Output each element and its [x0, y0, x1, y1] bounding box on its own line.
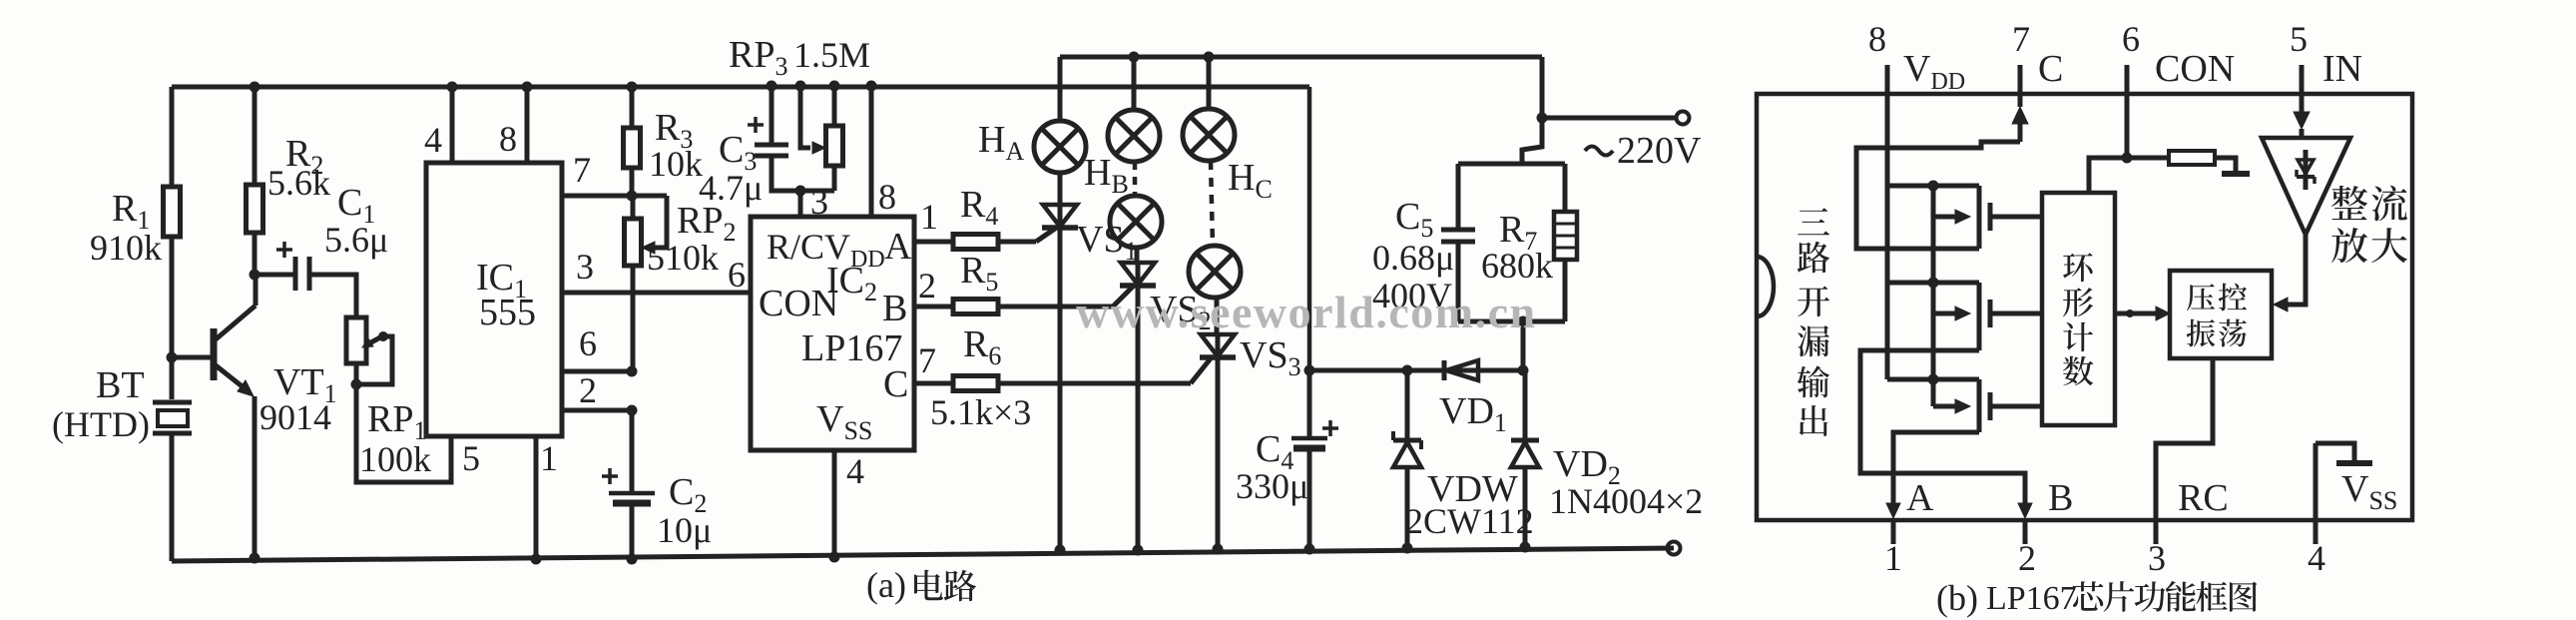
lamp HB upper	[1108, 110, 1160, 162]
label IC1 pin 6	[579, 323, 597, 363]
node pin2 junction	[627, 405, 638, 416]
node CON junction	[2122, 153, 2133, 164]
node HC column rail	[1204, 52, 1215, 63]
amp inner diode	[2297, 150, 2315, 190]
capacitor C5	[1441, 164, 1475, 321]
wire cell3 drain to pin1	[1886, 432, 1979, 544]
label LP167 R/C VDD A	[767, 226, 912, 273]
wire cell2 feed	[1887, 281, 1979, 286]
label R6	[963, 323, 1001, 370]
wire pin4 stub	[2314, 443, 2318, 544]
svg-text:IN: IN	[2322, 48, 2362, 90]
resistor R6	[953, 376, 998, 391]
label pin 2	[2018, 538, 2036, 578]
label IC1 pin 1	[540, 438, 558, 478]
svg-text:7: 7	[2012, 19, 2030, 59]
wire cell1 drain to pin7	[1856, 142, 2020, 249]
label RP3 and value 1.5M	[729, 34, 870, 81]
label IN net	[2322, 48, 2362, 90]
label R5	[960, 250, 998, 297]
diode VD2	[1511, 370, 1539, 547]
wire pin6 stub	[2125, 65, 2130, 158]
label R7 value 680k	[1481, 246, 1553, 286]
node pin7 R3 junction	[627, 191, 638, 202]
wire HB to VS2	[1135, 248, 1140, 264]
wire LP167 pin8 stub	[869, 86, 874, 217]
node RP3 wiper rail	[795, 81, 806, 92]
node emitter bottom rail	[250, 553, 260, 564]
label RP2 value 510k	[647, 238, 719, 278]
label LP167 name	[801, 327, 902, 369]
label VT1 type 9014	[259, 397, 331, 437]
label B net	[2048, 477, 2073, 519]
svg-text:1: 1	[920, 197, 938, 237]
wire HB column top	[1132, 57, 1137, 110]
label R7	[1499, 209, 1537, 256]
wire RP3 wiper	[800, 86, 825, 154]
wire C3 bottom to node	[772, 156, 834, 191]
wire to 220V terminal	[1542, 116, 1676, 121]
label C1 value 5.6u	[324, 220, 388, 260]
label C5 voltage 400V	[1372, 276, 1452, 315]
label IC1 pin 3	[576, 247, 594, 287]
label C5 value 0.68u	[1372, 238, 1454, 278]
svg-text:2: 2	[579, 370, 597, 410]
svg-text:1: 1	[540, 438, 558, 478]
node 220V junction	[1537, 113, 1548, 124]
svg-text:2CW112: 2CW112	[1405, 501, 1534, 541]
label VD2	[1553, 443, 1621, 490]
wire ring counter to VCO	[2115, 307, 2170, 320]
wire HA to VS1	[1058, 173, 1063, 205]
wire lamp rail drop	[1540, 57, 1545, 118]
wire IC1 pin6 line	[562, 369, 632, 374]
label LP167 pin 1	[920, 197, 938, 237]
capacitor C4	[1291, 370, 1338, 549]
svg-text:2: 2	[2018, 538, 2036, 578]
label VDW type 2CW112	[1405, 501, 1534, 541]
label RP1 value 100k	[359, 439, 431, 479]
wire pin A lead	[914, 240, 953, 245]
resistor R2	[247, 185, 263, 233]
label pin 7	[2012, 19, 2030, 59]
label R1 value 910k	[90, 228, 162, 268]
node VDW top	[1402, 365, 1413, 376]
wire LP167 pin3 stub	[798, 191, 803, 217]
wire RP1 bottom lead	[354, 363, 359, 384]
node pin8 drop rail	[866, 81, 877, 92]
svg-text:6: 6	[728, 255, 746, 295]
label VD2 type 1N4004x2	[1549, 481, 1703, 521]
node C4 bottom rail	[1304, 544, 1315, 555]
wire collector node to C1	[255, 273, 295, 278]
label VS1	[1076, 219, 1138, 266]
transistor VT1	[214, 275, 256, 561]
label IC1 pin 7	[573, 150, 591, 190]
caption a	[866, 565, 976, 605]
zener VDW	[1393, 370, 1421, 548]
label IC1 pin 5	[462, 438, 480, 478]
label C5	[1395, 196, 1433, 243]
label A net	[1906, 477, 1934, 519]
lamp HB lower	[1110, 196, 1162, 248]
node RP1 bottom junction	[351, 379, 362, 390]
svg-text:8: 8	[1868, 19, 1886, 59]
wire VS1 to bottom rail	[1058, 205, 1063, 550]
label LP167 CON	[759, 283, 838, 324]
label VSS	[2341, 468, 2397, 515]
svg-text:(a): (a)	[866, 565, 906, 605]
resistor R7	[1554, 164, 1577, 321]
svg-text:5: 5	[2290, 19, 2308, 59]
svg-text:R/C: R/C	[767, 227, 824, 267]
svg-text:100k: 100k	[359, 439, 431, 479]
op-amp U2 IC2 LP167 box	[751, 217, 914, 450]
label pin 4	[2308, 538, 2325, 578]
resistor R3	[624, 128, 641, 168]
svg-text:8: 8	[499, 119, 517, 159]
svg-text:5.6μ: 5.6μ	[324, 220, 388, 260]
node pin6 junction	[627, 366, 638, 377]
lamp HC lower	[1189, 246, 1241, 298]
terminal 220V	[1677, 112, 1690, 125]
svg-text:7: 7	[573, 150, 591, 190]
label RP2	[677, 200, 736, 247]
wire IC1 pin1 stub	[534, 436, 539, 560]
node collector junction	[250, 270, 260, 281]
svg-text:6: 6	[2122, 19, 2140, 59]
label BT	[96, 364, 145, 406]
node VS2 bottom rail	[1133, 545, 1144, 556]
svg-text:3: 3	[2148, 538, 2166, 578]
svg-text:4.7μ: 4.7μ	[699, 168, 763, 208]
node HB column rail	[1129, 52, 1140, 63]
wire pin5 stub	[2294, 65, 2310, 139]
wire cell2 drain to pin2	[1860, 350, 2032, 544]
node pin4 bottom rail	[829, 552, 840, 563]
wire top rail corner drop to rectifier node	[1307, 87, 1312, 370]
thyristor VS3	[1200, 334, 1236, 357]
label C3	[719, 129, 757, 176]
potentiometer RP3	[826, 86, 843, 191]
svg-text:1.5M: 1.5M	[793, 35, 870, 75]
svg-text:4: 4	[846, 451, 864, 491]
wire RC loop top	[1458, 162, 1565, 167]
node rectifier left	[1304, 365, 1315, 376]
svg-text:5.1k×3: 5.1k×3	[930, 392, 1031, 432]
wire bottom rail	[172, 548, 1674, 561]
label IC1 pin 8	[499, 119, 517, 159]
wire top VDD rail	[172, 85, 1309, 90]
wire C1 to RP1	[309, 275, 356, 317]
label VDW	[1427, 468, 1518, 510]
svg-text:CON: CON	[759, 283, 838, 324]
lamp HA	[1034, 121, 1086, 173]
wire amp to VCO	[2274, 235, 2306, 311]
node VS3 bottom rail	[1213, 544, 1224, 555]
wire R6 to VS3 gate	[998, 358, 1211, 383]
label IC1	[476, 257, 527, 304]
wire VS3 to bottom rail	[1216, 334, 1221, 549]
wire HC to VS3	[1215, 298, 1220, 335]
amplifier triangle	[2262, 138, 2350, 235]
potentiometer RP2	[625, 196, 668, 371]
wire R4 to VS1 gate	[998, 229, 1055, 242]
resistor R1	[164, 187, 181, 237]
watermark	[1076, 287, 1537, 337]
node cell1 feed	[1928, 181, 1939, 192]
ring counter box	[2042, 193, 2115, 425]
node VD2 bottom rail	[1520, 542, 1531, 553]
resistor R4	[953, 235, 998, 250]
wire 220V node to RC loop	[1522, 118, 1542, 164]
svg-text:510k: 510k	[647, 238, 719, 278]
label VT1	[273, 361, 337, 408]
svg-text:0.68μ: 0.68μ	[1372, 238, 1454, 278]
thyristor VS2	[1120, 263, 1156, 286]
wire RP1 to pin5 detour	[356, 384, 451, 482]
label C1	[337, 182, 375, 229]
label R1	[112, 188, 150, 235]
svg-text:1N4004×2: 1N4004×2	[1549, 481, 1703, 521]
potentiometer RP1	[346, 317, 392, 384]
wire VCO to pin3	[2156, 358, 2213, 544]
node VDW bottom rail	[1402, 543, 1413, 554]
label R3	[655, 107, 693, 154]
svg-text:B: B	[882, 288, 907, 329]
label HB	[1084, 152, 1129, 199]
terminal bottom right	[1668, 542, 1681, 555]
wire IC1 pin3 to CON	[562, 291, 751, 296]
block diagram outer box	[1757, 94, 2412, 520]
label IC1 pin 2	[579, 370, 597, 410]
wire VS2 to bottom rail	[1136, 263, 1141, 550]
wire IC1 pin2 line	[562, 408, 632, 413]
node VS1 bottom rail	[1055, 545, 1066, 556]
label LP167 VSS	[816, 398, 872, 445]
svg-text:C: C	[883, 363, 908, 405]
wire HC dashed link	[1211, 161, 1213, 246]
node base junction	[167, 352, 178, 363]
node VD1 cathode node	[1518, 365, 1529, 376]
svg-text:9014: 9014	[259, 397, 331, 437]
wire R2 top lead	[253, 87, 258, 185]
label LP167 pin 6	[728, 255, 746, 295]
node cell2 feed	[1928, 278, 1939, 289]
label RP1	[367, 398, 426, 445]
label ~220V	[1585, 130, 1702, 172]
svg-text:3: 3	[576, 247, 594, 287]
wire rectifier row	[1309, 368, 1523, 373]
wire R3 top lead	[630, 87, 635, 128]
resistor R5	[953, 300, 998, 314]
wire lamp HA column top	[1058, 57, 1063, 121]
wire crystal to bottom rail	[170, 433, 175, 561]
label three-way open-drain output	[1798, 208, 1830, 436]
node C3 top rail	[767, 81, 777, 92]
label pin 3	[2148, 538, 2166, 578]
label LP167 pin 3	[810, 182, 828, 222]
label LP167 pin 4	[846, 451, 864, 491]
node pin3 node	[795, 186, 806, 197]
wire C3 top lead	[770, 86, 774, 145]
label LP167 C	[883, 363, 908, 405]
svg-text:2: 2	[918, 266, 936, 306]
label ring counter	[2063, 253, 2093, 385]
label VS2	[1150, 289, 1212, 335]
wire RC loop bottom	[1458, 319, 1565, 324]
wire pin B lead	[914, 305, 953, 310]
label RC net	[2178, 477, 2229, 519]
wire HB dashed link	[1133, 162, 1138, 196]
label LP167 pin 7	[918, 340, 936, 380]
wire CON to ring counter	[2089, 158, 2127, 193]
svg-text:C: C	[2038, 48, 2063, 90]
label LP167 B	[882, 288, 907, 329]
svg-text:220V: 220V	[1617, 130, 1702, 172]
wire IC1 pin7 line	[562, 194, 667, 199]
label C3 value 4.7u	[699, 168, 763, 208]
wire cell1 feed	[1887, 184, 1979, 189]
capacitor C3	[748, 117, 788, 156]
label VDD	[1903, 48, 1965, 95]
wire R5 to VS2 gate	[998, 287, 1133, 307]
label HC	[1228, 157, 1273, 204]
node RP3 top rail	[829, 81, 840, 92]
label C4	[1256, 428, 1293, 475]
crystal BT	[153, 402, 192, 433]
node ring VCO link	[2126, 310, 2134, 317]
label pin 6	[2122, 19, 2140, 59]
svg-text:10k: 10k	[649, 144, 703, 184]
label R2	[285, 133, 323, 180]
wire cell3 feed	[1887, 377, 1979, 382]
label LP167 pin 8	[878, 177, 896, 217]
wire R3 bottom lead	[630, 168, 635, 196]
wire CON to resistor	[2127, 156, 2169, 161]
label VCO	[2187, 284, 2247, 347]
label R4	[960, 184, 998, 231]
label HA	[978, 119, 1024, 166]
wire LP167 pin4 stub	[832, 450, 837, 558]
wire R1 to base node	[170, 237, 175, 357]
wire loop to VD1 node	[1521, 321, 1526, 370]
svg-text:LP167: LP167	[1986, 580, 2077, 617]
svg-text:4: 4	[2308, 538, 2325, 578]
label R3 value 10k	[649, 144, 703, 184]
label C net	[2038, 48, 2063, 90]
svg-text:8: 8	[878, 177, 896, 217]
wire IC1 pin8 stub	[525, 87, 530, 163]
svg-text:7: 7	[918, 340, 936, 380]
svg-text:555: 555	[479, 292, 536, 333]
node R2 top	[250, 82, 260, 93]
label C2 value 10u	[657, 510, 712, 550]
node cell3 feed	[1928, 374, 1939, 385]
label IC1 pin 4	[424, 120, 442, 160]
diode VD1	[1444, 360, 1478, 380]
svg-text:(HTD): (HTD)	[52, 404, 150, 444]
label resistor values 5.1k x3	[930, 392, 1031, 432]
lamp HC upper	[1183, 109, 1235, 161]
label VS3	[1240, 334, 1301, 381]
label LP167 pin 2	[918, 266, 936, 306]
node R3 top rail	[627, 82, 638, 93]
wire lamp rail	[1060, 55, 1542, 60]
power VSS symbol	[2316, 443, 2372, 463]
svg-text:www.seeworld.com.cn: www.seeworld.com.cn	[1076, 287, 1537, 337]
VCO box	[2170, 271, 2272, 358]
wire R2 to collector node	[253, 233, 258, 275]
svg-text:10μ: 10μ	[657, 510, 712, 550]
thyristor VS1	[1042, 205, 1078, 228]
wire left edge column	[170, 87, 175, 187]
label R2 value 5.6k	[267, 163, 330, 203]
wire base node to crystal	[170, 357, 175, 399]
node RC loop bottom feed	[1518, 316, 1529, 327]
svg-text:CON: CON	[2155, 48, 2235, 90]
node pin4 rail	[447, 82, 458, 93]
svg-text:4: 4	[424, 120, 442, 160]
label VD1	[1439, 390, 1507, 437]
svg-text:RC: RC	[2178, 477, 2229, 519]
label CON net	[2155, 48, 2235, 90]
svg-text:1: 1	[1884, 538, 1902, 578]
wire HC column top	[1207, 57, 1212, 109]
svg-text:5: 5	[462, 438, 480, 478]
svg-text:(b): (b)	[1936, 578, 1978, 618]
svg-text:A: A	[1906, 477, 1934, 519]
transistor Q2 cell	[1933, 283, 2042, 350]
label IC1 555	[479, 292, 536, 333]
label C2	[669, 471, 707, 518]
svg-text:B: B	[2048, 477, 2073, 519]
svg-text:680k: 680k	[1481, 246, 1553, 286]
label pin 5	[2290, 19, 2308, 59]
resistor CON filter	[2169, 151, 2215, 165]
svg-text:910k: 910k	[90, 228, 162, 268]
wire pin8 stub VDD bus	[1885, 65, 1890, 379]
wire C2 to bottom rail	[630, 503, 635, 560]
node pin8 rail	[522, 82, 533, 93]
label IC2	[826, 260, 877, 307]
wire RP2 column to C2	[630, 410, 635, 493]
label rectifier amplifier	[2331, 186, 2407, 264]
node pin1 bottom rail	[531, 554, 542, 565]
label C4 value 330u	[1236, 466, 1308, 506]
wire pin7 stub	[2012, 65, 2028, 142]
svg-text:A: A	[884, 226, 912, 268]
IC notch arc	[1757, 257, 1774, 316]
wire pin C lead	[914, 381, 953, 386]
label BT type (HTD)	[52, 404, 150, 444]
svg-text:BT: BT	[96, 364, 145, 406]
op-amp U1 IC1 555 box	[426, 163, 562, 436]
svg-text:330μ: 330μ	[1236, 466, 1308, 506]
svg-text:6: 6	[579, 323, 597, 363]
caption b	[1936, 578, 2257, 618]
capacitor C1	[276, 242, 309, 291]
transistor VT1 base wire	[172, 355, 212, 360]
label pin 1	[1884, 538, 1902, 578]
label pin 8	[1868, 19, 1886, 59]
ground	[2222, 171, 2250, 177]
svg-text:5.6k: 5.6k	[267, 163, 330, 203]
node C2 bottom rail	[627, 554, 638, 565]
wire resistor to ground	[2215, 158, 2236, 172]
wire IC1 pin4 stub	[450, 87, 455, 163]
transistor Q1 cell	[1933, 186, 2042, 249]
